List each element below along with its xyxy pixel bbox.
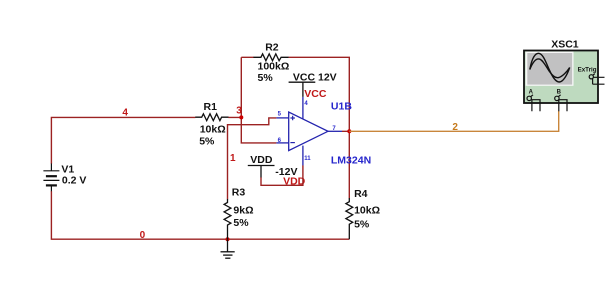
svg-text:100kΩ: 100kΩ — [258, 60, 290, 72]
svg-text:9kΩ: 9kΩ — [233, 205, 253, 217]
svg-text:1: 1 — [230, 153, 236, 164]
svg-text:LM324N: LM324N — [331, 155, 371, 167]
resistor R1 — [195, 114, 228, 121]
terminal A — [527, 95, 540, 112]
wire net 0 (bottom rail) — [51, 191, 349, 239]
scope sine wave — [530, 53, 570, 82]
junction node 2 (output) — [347, 129, 351, 133]
svg-text:4: 4 — [304, 101, 308, 107]
wire net 7 (R2 right, output column down to R4) — [289, 57, 350, 198]
wire net 2 (orange, output to scope B) — [349, 111, 558, 131]
svg-text:11: 11 — [304, 156, 311, 162]
svg-text:R1: R1 — [204, 101, 218, 113]
svg-text:R2: R2 — [265, 41, 279, 53]
ground — [221, 239, 235, 258]
svg-text:4: 4 — [122, 108, 128, 119]
svg-text:5%: 5% — [199, 136, 215, 148]
wire node 1 (R3 top to non-inverting input) — [228, 118, 277, 199]
resistor R4 — [346, 198, 353, 239]
wire node 3 (R1 to junction, feedback column, to inverting input) — [228, 57, 276, 143]
wire VDD rail to op-amp pin 11 — [261, 165, 303, 185]
svg-text:10kΩ: 10kΩ — [200, 124, 226, 136]
svg-text:B: B — [557, 89, 562, 95]
svg-text:0: 0 — [140, 230, 146, 241]
svg-text:ExTrig: ExTrig — [578, 67, 597, 74]
svg-text:VCC: VCC — [304, 88, 327, 100]
scope body — [524, 51, 598, 104]
voltage source V1 — [43, 164, 59, 192]
terminal B — [555, 95, 567, 112]
junction ground node — [226, 237, 230, 241]
svg-text:U1B: U1B — [331, 101, 352, 113]
junction node 3 — [239, 115, 243, 119]
ExTrig terminal — [589, 74, 604, 85]
svg-text:5%: 5% — [258, 72, 274, 84]
resistor R3 — [224, 199, 231, 239]
svg-text:5%: 5% — [354, 219, 370, 231]
scope screen — [526, 52, 574, 86]
svg-text:VDD: VDD — [250, 154, 273, 166]
svg-text:0.2 V: 0.2 V — [62, 174, 87, 186]
svg-text:3: 3 — [236, 105, 242, 116]
resistor R2 — [253, 54, 288, 61]
VDD power symbol — [248, 166, 275, 178]
op-amp U1B — [276, 97, 342, 165]
svg-text:2: 2 — [452, 122, 458, 133]
svg-text:VCC 12V: VCC 12V — [293, 72, 337, 84]
svg-text:XSC1: XSC1 — [551, 38, 579, 50]
svg-text:R3: R3 — [232, 187, 246, 199]
wire net 4 (V1 plus to R1) — [51, 117, 195, 163]
VCC power symbol — [289, 82, 316, 97]
svg-text:10kΩ: 10kΩ — [354, 205, 380, 217]
svg-text:5: 5 — [278, 112, 282, 118]
svg-text:5%: 5% — [233, 217, 249, 229]
svg-text:R4: R4 — [354, 188, 368, 200]
